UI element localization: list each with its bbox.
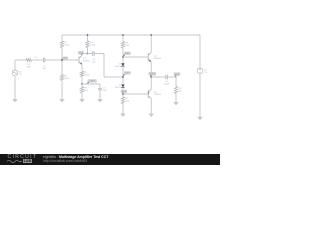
wire rail to V2 xyxy=(199,35,201,68)
wire rail to R2 xyxy=(61,35,63,41)
svg-text:4.9 V: 4.9 V xyxy=(122,91,127,93)
transistor Q1 xyxy=(79,56,82,65)
svg-text:2N3906: 2N3906 xyxy=(154,94,162,96)
svg-text:10kΩ: 10kΩ xyxy=(65,78,70,80)
ground (R7) xyxy=(121,113,126,115)
voltage source V2 xyxy=(197,68,203,74)
diode D2 xyxy=(121,85,124,88)
svg-text:2N3904: 2N3904 xyxy=(83,61,91,63)
svg-text:1kΩ: 1kΩ xyxy=(126,101,130,103)
wire cap to ground xyxy=(99,90,101,100)
resistor R2 (upper bias) xyxy=(60,41,63,48)
svg-text:2N3904: 2N3904 xyxy=(154,58,162,60)
svg-text:5.6 V: 5.6 V xyxy=(125,73,130,75)
wire load to ground xyxy=(175,94,177,103)
transistor Q3 (PNP) xyxy=(148,89,151,98)
svg-text:1kΩ: 1kΩ xyxy=(126,45,130,47)
wire C3 to bias chain xyxy=(94,54,123,78)
wire R3 to ground xyxy=(61,80,63,99)
svg-text:50Ω: 50Ω xyxy=(27,66,31,68)
wire Q1 emitter xyxy=(81,64,83,71)
node VC1 tag xyxy=(78,51,83,54)
wire V1 bottom xyxy=(14,76,16,99)
ground (C2) xyxy=(98,98,103,100)
wire D1 to mid node xyxy=(122,66,124,84)
svg-text:100µF: 100µF xyxy=(164,83,170,85)
wire D2 to Q3 base node xyxy=(122,88,124,98)
wire R7 to ground xyxy=(122,104,124,115)
node VB2 tag xyxy=(124,52,130,55)
wire Q3 emitter to output node xyxy=(150,77,152,89)
svg-text:5.55 V: 5.55 V xyxy=(150,74,156,76)
wire output to C4 xyxy=(151,76,166,78)
ground (V1) xyxy=(13,98,18,100)
wire R5 to emitter node xyxy=(81,77,83,84)
capacitor C4 (output coupling) xyxy=(165,75,167,80)
wire V2 to ground xyxy=(199,74,201,117)
resistor R6 (bias top) xyxy=(121,42,124,49)
capacitor C2 (emitter bypass) xyxy=(98,87,102,89)
svg-text:1N4148: 1N4148 xyxy=(115,87,123,89)
CircuitLab logo xyxy=(8,154,38,160)
node Q2 base xyxy=(122,56,124,58)
svg-text:47kΩ: 47kΩ xyxy=(65,45,70,47)
svg-text:10µF: 10µF xyxy=(102,90,107,92)
wire R6 to Q2 base node xyxy=(122,48,124,63)
resistor R3 (lower bias) xyxy=(60,75,63,81)
wire emitter node to bypass cap xyxy=(82,84,100,88)
svg-text:1.05 V: 1.05 V xyxy=(89,81,95,83)
top rail V+ xyxy=(62,34,200,36)
node Vout tag xyxy=(149,72,156,75)
svg-text:4.7kΩ: 4.7kΩ xyxy=(90,45,96,47)
ground (V2) xyxy=(198,116,203,118)
transistor Q2 (NPN) xyxy=(148,52,151,61)
footer bar xyxy=(0,154,220,165)
node collector Q1 xyxy=(87,53,89,55)
wire R4 to collector node xyxy=(87,48,89,54)
svg-text:1kΩ: 1kΩ xyxy=(84,90,88,92)
node output xyxy=(150,76,152,78)
node Q3 base xyxy=(122,93,124,95)
wire rail to R6 xyxy=(122,35,124,42)
node mid tag xyxy=(124,72,130,75)
wire Q1 collector xyxy=(82,54,93,56)
wire xyxy=(61,48,63,76)
wire R6 legs xyxy=(81,84,83,99)
wire Q2 emitter to output node xyxy=(150,62,152,77)
wire xyxy=(32,59,43,61)
diode D1 xyxy=(121,63,124,66)
node load tag xyxy=(174,73,180,76)
wire C4 to load xyxy=(167,77,176,87)
voltage source V1 xyxy=(12,70,18,76)
wire Q3 collector to ground xyxy=(150,99,152,114)
wire to Q2 base xyxy=(123,56,148,58)
svg-text:1.6 V: 1.6 V xyxy=(63,58,68,60)
node VE1 tag xyxy=(88,80,97,83)
wire V1 top to input xyxy=(15,60,26,70)
node (divider/base) xyxy=(61,59,63,61)
ground (Q3) xyxy=(149,113,154,115)
wire rail to R4 xyxy=(87,35,89,41)
svg-text:0.0 V: 0.0 V xyxy=(175,74,180,76)
ground (divider) xyxy=(60,98,65,100)
resistor R7 (bias bottom) xyxy=(121,97,124,104)
capacitor C1 (input coupling) xyxy=(42,58,44,63)
capacitor C3 (coupling) xyxy=(92,51,94,56)
wire to Q3 base xyxy=(123,93,148,95)
resistor R8 (load) xyxy=(174,87,177,94)
ground (emitter) xyxy=(80,98,85,100)
svg-text:Vin: Vin xyxy=(35,57,38,59)
resistor R1 (series input) xyxy=(26,59,32,62)
node (divider/base) tag xyxy=(63,57,68,59)
node mid bias xyxy=(122,76,124,78)
meta text xyxy=(43,155,108,159)
svg-text:100Ω: 100Ω xyxy=(84,75,89,77)
svg-text:1N4148: 1N4148 xyxy=(115,66,123,68)
wire C1 to Q1 base xyxy=(45,59,79,61)
svg-text:6.3 V: 6.3 V xyxy=(125,53,130,55)
ground (load) xyxy=(174,101,179,103)
node emitter xyxy=(81,83,83,85)
resistor R6 (emitter lower) xyxy=(80,87,83,93)
resistor R5 (emitter degeneration) xyxy=(80,71,83,76)
node VB3 tag xyxy=(121,90,127,93)
resistor R4 (collector) xyxy=(86,41,89,48)
wire Q2 collector to rail xyxy=(150,35,152,52)
